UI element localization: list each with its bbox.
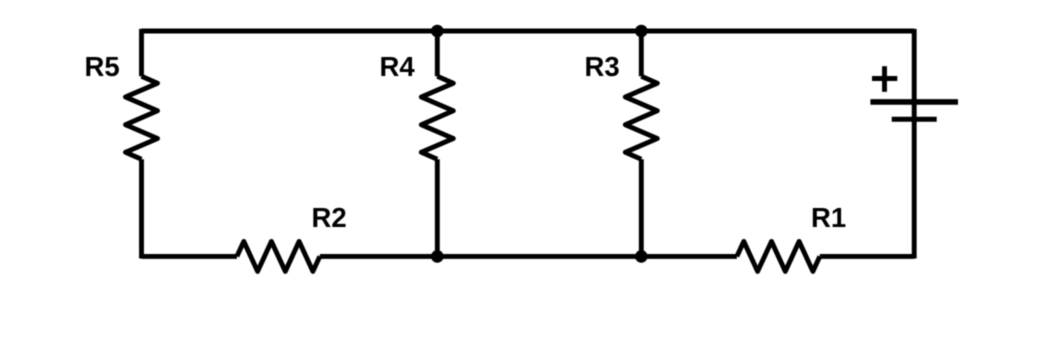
wire left branch lower lead	[139, 159, 144, 258]
wire R3 branch upper lead	[639, 31, 644, 76]
battery V1 negative plate	[892, 117, 937, 122]
svg-text:R2: R2	[312, 202, 347, 233]
wire left branch upper lead	[139, 29, 144, 76]
node bottom R3 junction	[635, 250, 648, 263]
resistor R4	[421, 76, 453, 159]
wire R4 branch upper lead	[435, 31, 440, 76]
svg-text:R4: R4	[380, 51, 416, 82]
battery V1 positive plate	[870, 99, 958, 105]
svg-text:R1: R1	[811, 202, 846, 233]
node top R3 junction	[635, 25, 648, 38]
resistor R1	[737, 241, 820, 271]
node top R4 junction	[431, 25, 444, 38]
wire bottom left segment	[142, 254, 237, 259]
resistor R2	[237, 241, 320, 271]
resistor R3	[625, 76, 657, 159]
resistor R5	[126, 76, 158, 159]
wire bottom right segment	[820, 254, 914, 259]
wire right branch vertical	[912, 29, 917, 259]
svg-text:R5: R5	[85, 51, 120, 82]
wire R4 branch lower lead	[435, 159, 440, 256]
node bottom R4 junction	[431, 250, 444, 263]
svg-text:R3: R3	[585, 51, 620, 82]
battery plus sign	[872, 76, 897, 81]
wire top horizontal	[142, 29, 915, 34]
wire bottom middle segment	[320, 254, 737, 259]
wire R3 branch lower lead	[639, 159, 644, 256]
